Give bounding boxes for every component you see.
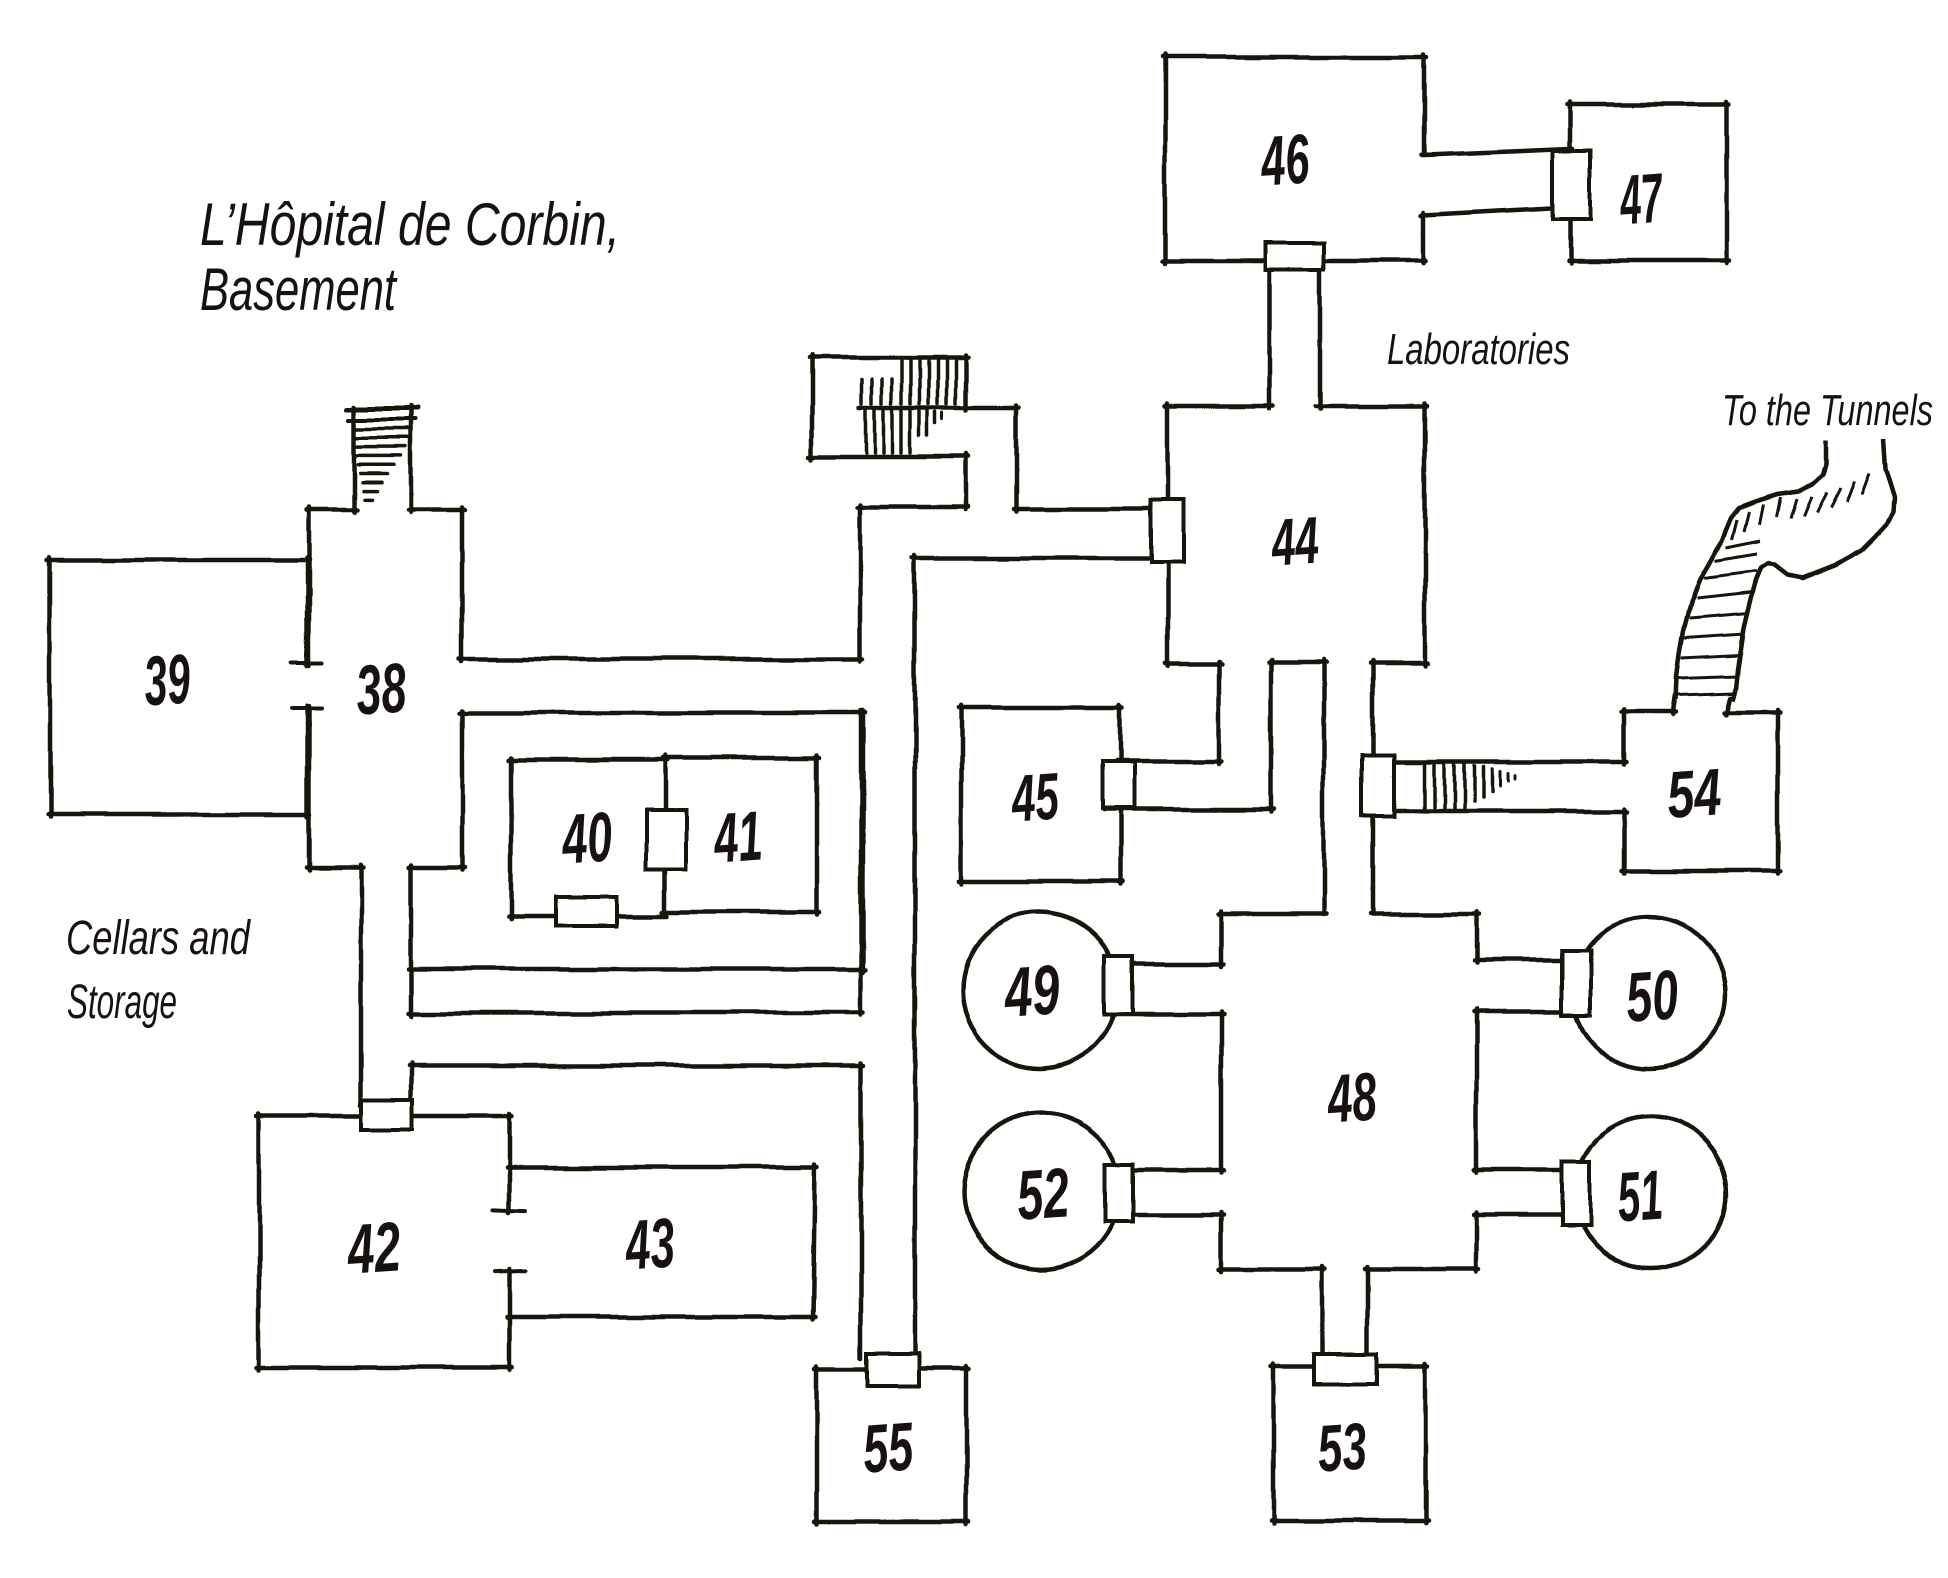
svg-text:54: 54 (1665, 754, 1724, 832)
svg-text:Laboratories: Laboratories (1387, 325, 1570, 374)
svg-text:38: 38 (353, 648, 408, 729)
svg-text:L’Hôpital de Corbin,: L’Hôpital de Corbin, (200, 191, 620, 258)
svg-text:39: 39 (141, 639, 192, 720)
svg-text:51: 51 (1615, 1156, 1665, 1237)
svg-text:45: 45 (1008, 758, 1062, 835)
svg-text:53: 53 (1315, 1408, 1369, 1485)
svg-text:Storage: Storage (67, 976, 177, 1029)
svg-text:46: 46 (1257, 119, 1312, 200)
svg-text:47: 47 (1616, 159, 1666, 240)
svg-text:43: 43 (622, 1203, 678, 1284)
svg-text:42: 42 (344, 1207, 404, 1289)
svg-text:41: 41 (710, 796, 765, 877)
svg-text:55: 55 (860, 1408, 916, 1487)
svg-text:Basement: Basement (200, 256, 398, 323)
svg-text:52: 52 (1014, 1153, 1071, 1234)
svg-text:40: 40 (558, 797, 615, 878)
svg-text:50: 50 (1623, 955, 1680, 1036)
svg-text:48: 48 (1324, 1058, 1380, 1137)
svg-text:44: 44 (1268, 502, 1321, 579)
svg-text:Cellars and: Cellars and (66, 912, 251, 965)
svg-text:To the Tunnels: To the Tunnels (1722, 386, 1933, 435)
svg-text:49: 49 (1001, 950, 1063, 1032)
